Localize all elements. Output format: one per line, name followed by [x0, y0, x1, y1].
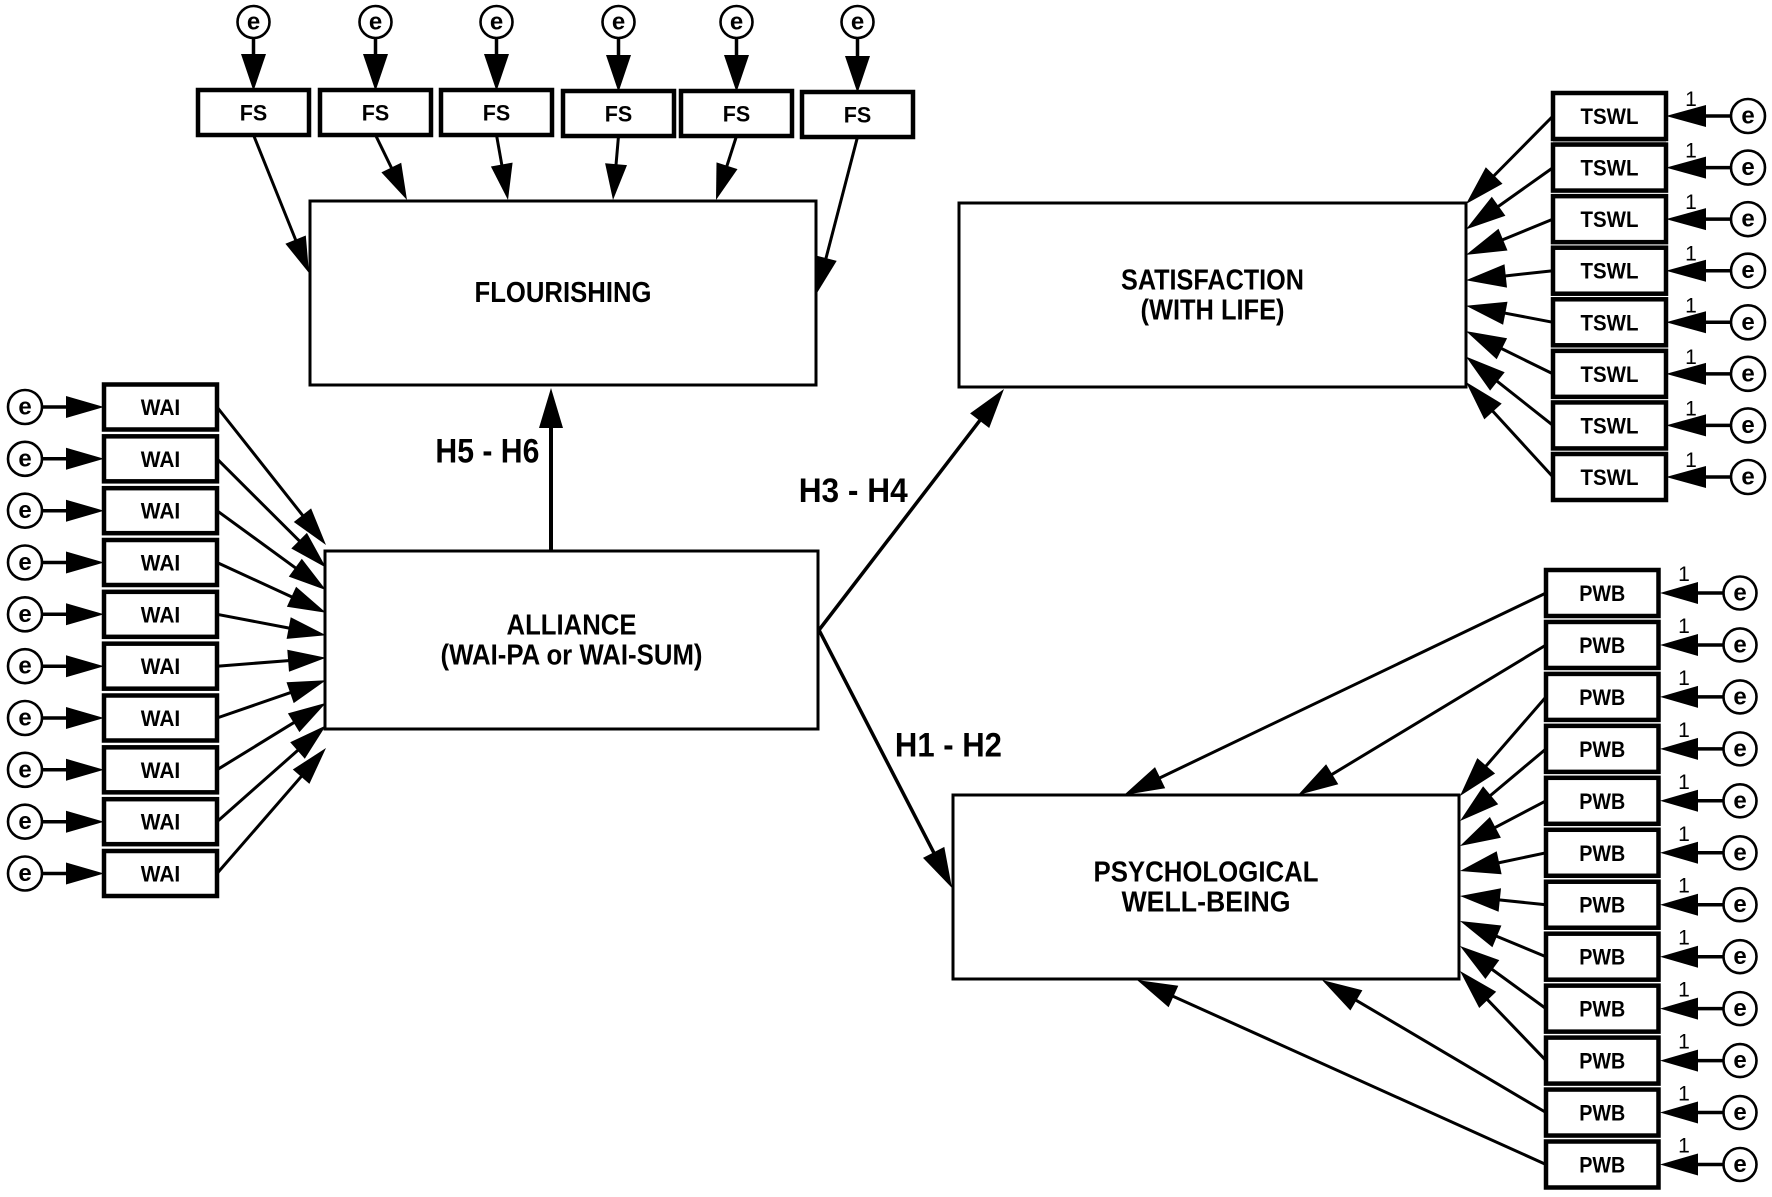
error circle e (left of WAI7): [8, 701, 42, 735]
arrow e to WAI7: [42, 707, 104, 729]
path TSWL5 to SATISFACTION: [1466, 302, 1553, 325]
path FS3 to FLOURISHING (top edge): [491, 135, 513, 200]
svg-text:e: e: [1733, 839, 1746, 866]
path PWB10 to PWB box (right edge): [1460, 971, 1546, 1061]
svg-text:1: 1: [1678, 1135, 1690, 1158]
svg-text:e: e: [1733, 995, 1746, 1022]
indicator box TSWL3: [1553, 196, 1666, 242]
arrow e to PWB2: [1660, 634, 1724, 656]
svg-text:TSWL: TSWL: [1581, 362, 1639, 387]
arrow e to PWB8: [1660, 946, 1724, 968]
svg-text:e: e: [1741, 257, 1754, 284]
svg-text:e: e: [369, 9, 382, 36]
error circle e (right of PWB8): [1724, 940, 1757, 973]
arrow e to PWB3: [1660, 686, 1724, 708]
indicator box TSWL4: [1553, 248, 1666, 294]
error circle e (right of TSWL1): [1731, 99, 1765, 133]
svg-text:WAI: WAI: [141, 810, 181, 835]
indicator box TSWL6: [1553, 351, 1666, 397]
svg-text:e: e: [1741, 360, 1754, 387]
svg-text:e: e: [1733, 1047, 1746, 1074]
indicator box WAI10: [104, 851, 217, 896]
arrow e to PWB7: [1660, 894, 1724, 916]
svg-text:WAI: WAI: [141, 758, 181, 783]
svg-text:e: e: [247, 9, 260, 36]
indicator box WAI3: [104, 488, 217, 533]
svg-text:1: 1: [1685, 191, 1697, 214]
svg-text:PWB: PWB: [1579, 789, 1625, 814]
svg-text:TSWL: TSWL: [1581, 156, 1639, 181]
svg-text:e: e: [18, 653, 31, 680]
structural path ALLIANCE to PSYCHOLOGICAL WELL-BEING (H1-H2): [819, 630, 952, 888]
svg-text:e: e: [1741, 464, 1754, 491]
svg-text:WAI: WAI: [141, 862, 181, 887]
svg-text:WAI: WAI: [141, 654, 181, 679]
error circle e (left of WAI4): [8, 546, 42, 580]
path FS1 to FLOURISHING (left edge): [254, 135, 310, 273]
arrow e to PWB9: [1660, 998, 1724, 1020]
path FS5 to FLOURISHING (top edge): [716, 136, 738, 200]
indicator box TSWL2: [1553, 145, 1666, 191]
svg-text:e: e: [1733, 735, 1746, 762]
indicator box PWB3: [1546, 674, 1659, 720]
path TSWL4 to SATISFACTION: [1466, 264, 1553, 287]
error circle e6 (above FS6): [842, 6, 874, 38]
path PWB1 to PWB box (top edge): [1124, 593, 1546, 795]
svg-text:H3 - H4: H3 - H4: [799, 472, 908, 510]
latent box PSYCHOLOGICAL WELL-BEING: [953, 795, 1459, 979]
error circle e (right of TSWL5): [1731, 305, 1765, 339]
svg-text:H1 - H2: H1 - H2: [895, 726, 1002, 764]
svg-text:TSWL: TSWL: [1581, 259, 1639, 284]
error circle e (right of PWB6): [1724, 836, 1757, 869]
svg-text:PWB: PWB: [1579, 893, 1625, 918]
svg-text:e: e: [1741, 309, 1754, 336]
svg-text:e: e: [851, 9, 864, 36]
svg-text:WAI: WAI: [141, 551, 181, 576]
path PWB9 to PWB box (right edge): [1460, 946, 1546, 1009]
arrow e to PWB5: [1660, 790, 1724, 812]
error circle e4 (above FS4): [603, 6, 635, 38]
path PWB11 to PWB box (bottom edge): [1322, 980, 1546, 1113]
indicator box WAI9: [104, 799, 217, 844]
path WAI2 to ALLIANCE: [217, 459, 326, 568]
path PWB7 to PWB box (right edge): [1460, 888, 1546, 911]
svg-text:e: e: [1741, 154, 1754, 181]
error circle e (right of PWB12): [1724, 1148, 1757, 1181]
arrow e to PWB6: [1660, 842, 1724, 864]
error circle e (right of TSWL4): [1731, 254, 1765, 288]
indicator box TSWL5: [1553, 299, 1666, 345]
path WAI10 to ALLIANCE: [217, 748, 326, 874]
svg-text:1: 1: [1678, 1031, 1690, 1054]
error circle e (right of TSWL8): [1731, 460, 1765, 494]
error circle e (right of PWB3): [1724, 680, 1757, 713]
error circle e (left of WAI6): [8, 649, 42, 683]
indicator box WAI1: [104, 385, 217, 430]
indicator box WAI4: [104, 540, 217, 585]
arrow e3 to FS3: [484, 38, 509, 91]
indicator box TSWL1: [1553, 93, 1666, 139]
arrow e to WAI10: [42, 863, 104, 885]
path FS2 to FLOURISHING (top edge): [376, 135, 408, 200]
error circle e3 (above FS3): [481, 6, 513, 38]
svg-text:WAI: WAI: [141, 499, 181, 524]
error circle e (right of PWB1): [1724, 577, 1757, 610]
svg-text:1: 1: [1685, 88, 1697, 111]
indicator box PWB5: [1546, 778, 1659, 824]
indicator box WAI5: [104, 592, 217, 637]
svg-text:(WITH LIFE): (WITH LIFE): [1141, 295, 1285, 327]
svg-text:e: e: [1733, 580, 1746, 607]
svg-text:1: 1: [1678, 875, 1690, 898]
svg-text:1: 1: [1678, 979, 1690, 1002]
path TSWL8 to SATISFACTION: [1466, 382, 1553, 477]
indicator box WAI7: [104, 696, 217, 741]
svg-text:e: e: [1733, 943, 1746, 970]
error circle e5 (above FS5): [721, 6, 753, 38]
path TSWL7 to SATISFACTION: [1466, 357, 1553, 426]
path PWB4 to PWB box (right edge): [1460, 749, 1546, 821]
svg-text:WAI: WAI: [141, 395, 181, 420]
error circle e (left of WAI1): [8, 390, 42, 424]
arrow e to WAI9: [42, 811, 104, 833]
svg-text:TSWL: TSWL: [1581, 207, 1639, 232]
indicator box PWB10: [1546, 1038, 1659, 1084]
arrow e to PWB10: [1660, 1050, 1724, 1072]
indicator box TSWL8: [1553, 454, 1666, 500]
indicator box TSWL7: [1553, 402, 1666, 448]
path PWB12 to PWB box (bottom edge): [1137, 980, 1546, 1165]
arrow e to PWB1: [1660, 582, 1724, 604]
svg-text:e: e: [18, 705, 31, 732]
svg-text:WELL-BEING: WELL-BEING: [1122, 887, 1291, 919]
svg-text:FLOURISHING: FLOURISHING: [475, 277, 652, 309]
svg-text:(WAI-PA or WAI-SUM): (WAI-PA or WAI-SUM): [441, 640, 703, 672]
path WAI8 to ALLIANCE: [217, 703, 326, 770]
svg-text:PWB: PWB: [1579, 737, 1625, 762]
gray band between TSWL1 and TSWL2: [1553, 139, 1666, 144]
error circle e1 (above FS1): [238, 6, 270, 38]
indicator box PWB4: [1546, 726, 1659, 772]
arrow e1 to FS1: [241, 38, 266, 91]
path PWB6 to PWB box (right edge): [1460, 851, 1546, 874]
path FS6 to FLOURISHING (right edge): [815, 137, 857, 293]
arrow e to PWB4: [1660, 738, 1724, 760]
svg-text:1: 1: [1685, 449, 1697, 472]
svg-text:e: e: [18, 394, 31, 421]
svg-text:FS: FS: [844, 103, 872, 128]
svg-text:TSWL: TSWL: [1581, 104, 1639, 129]
svg-text:e: e: [490, 9, 503, 36]
indicator box FS1: [198, 90, 309, 135]
svg-text:SATISFACTION: SATISFACTION: [1121, 265, 1304, 297]
arrow e4 to FS4: [606, 38, 631, 92]
path TSWL3 to SATISFACTION: [1466, 219, 1553, 255]
error circle e (left of WAI10): [8, 857, 42, 891]
svg-text:e: e: [18, 497, 31, 524]
path PWB8 to PWB box (right edge): [1460, 921, 1546, 957]
svg-text:1: 1: [1678, 615, 1690, 638]
error circle e (right of TSWL3): [1731, 202, 1765, 236]
latent box SATISFACTION: [959, 203, 1466, 387]
svg-text:PWB: PWB: [1579, 581, 1625, 606]
error circle e (right of PWB5): [1724, 784, 1757, 817]
svg-text:WAI: WAI: [141, 602, 181, 627]
svg-text:PWB: PWB: [1579, 997, 1625, 1022]
error circle e (right of TSWL7): [1731, 408, 1765, 442]
indicator box PWB11: [1546, 1090, 1659, 1136]
svg-text:TSWL: TSWL: [1581, 465, 1639, 490]
indicator box FS3: [441, 90, 552, 135]
svg-text:e: e: [1733, 631, 1746, 658]
path WAI9 to ALLIANCE: [217, 725, 326, 821]
arrow e to PWB11: [1660, 1102, 1724, 1124]
svg-text:FS: FS: [362, 101, 390, 126]
svg-text:e: e: [18, 601, 31, 628]
error circle e (left of WAI5): [8, 597, 42, 631]
indicator box PWB12: [1546, 1142, 1659, 1188]
svg-text:e: e: [1733, 683, 1746, 710]
arrow e to TSWL8: [1666, 466, 1731, 488]
path WAI5 to ALLIANCE: [217, 614, 326, 639]
arrow e to TSWL6: [1666, 363, 1731, 385]
arrow e6 to FS6: [845, 38, 870, 93]
svg-text:1: 1: [1685, 346, 1697, 369]
svg-text:e: e: [612, 9, 625, 36]
latent box FLOURISHING: [310, 201, 816, 385]
svg-text:e: e: [18, 860, 31, 887]
svg-text:PWB: PWB: [1579, 633, 1625, 658]
svg-text:1: 1: [1685, 140, 1697, 163]
svg-text:PWB: PWB: [1579, 841, 1625, 866]
error circle e (right of PWB11): [1724, 1096, 1757, 1129]
svg-text:e: e: [18, 549, 31, 576]
svg-text:e: e: [1741, 206, 1754, 233]
svg-text:e: e: [1733, 787, 1746, 814]
svg-text:WAI: WAI: [141, 706, 181, 731]
indicator box PWB9: [1546, 986, 1659, 1032]
indicator box FS5: [681, 91, 792, 136]
svg-text:PWB: PWB: [1579, 1101, 1625, 1126]
svg-text:1: 1: [1678, 823, 1690, 846]
svg-text:e: e: [730, 9, 743, 36]
svg-text:PSYCHOLOGICAL: PSYCHOLOGICAL: [1094, 857, 1319, 889]
indicator box WAI2: [104, 436, 217, 481]
indicator box WAI8: [104, 747, 217, 792]
svg-text:e: e: [18, 445, 31, 472]
latent box ALLIANCE: [325, 551, 818, 729]
arrow e to WAI3: [42, 500, 104, 522]
path PWB2 to PWB box (top edge): [1298, 645, 1546, 795]
svg-text:e: e: [18, 756, 31, 783]
error circle e (right of PWB9): [1724, 992, 1757, 1025]
path WAI4 to ALLIANCE: [217, 563, 326, 613]
error circle e (right of PWB10): [1724, 1044, 1757, 1077]
error circle e (right of PWB7): [1724, 888, 1757, 921]
svg-text:1: 1: [1678, 771, 1690, 794]
indicator box PWB7: [1546, 882, 1659, 928]
path WAI7 to ALLIANCE: [217, 680, 326, 718]
indicator box PWB8: [1546, 934, 1659, 980]
arrow e to WAI2: [42, 448, 104, 470]
svg-text:PWB: PWB: [1579, 1049, 1625, 1074]
path FS4 to FLOURISHING (top edge): [605, 136, 627, 200]
arrow e to WAI8: [42, 759, 104, 781]
svg-text:1: 1: [1685, 294, 1697, 317]
error circle e2 (above FS2): [360, 6, 392, 38]
svg-text:ALLIANCE: ALLIANCE: [507, 610, 637, 642]
indicator box FS6: [802, 92, 913, 137]
error circle e (right of PWB4): [1724, 732, 1757, 765]
arrow e to TSWL4: [1666, 260, 1731, 282]
svg-text:e: e: [1733, 891, 1746, 918]
indicator box PWB6: [1546, 830, 1659, 876]
arrow e to WAI6: [42, 655, 104, 677]
structural path ALLIANCE to FLOURISHING (H5-H6): [539, 388, 563, 551]
svg-text:e: e: [18, 808, 31, 835]
svg-text:e: e: [1741, 103, 1754, 130]
path PWB3 to PWB box (right edge): [1460, 697, 1546, 796]
arrow e to TSWL3: [1666, 208, 1731, 230]
path WAI1 to ALLIANCE: [217, 407, 326, 545]
svg-text:FS: FS: [723, 102, 751, 127]
svg-text:e: e: [1733, 1099, 1746, 1126]
svg-text:FS: FS: [240, 101, 268, 126]
path TSWL6 to SATISFACTION: [1466, 331, 1553, 374]
arrow e to WAI4: [42, 552, 104, 574]
svg-text:H5 - H6: H5 - H6: [435, 433, 539, 471]
arrow e to WAI1: [42, 396, 104, 418]
path PWB5 to PWB box (right edge): [1460, 801, 1546, 846]
error circle e (left of WAI2): [8, 442, 42, 476]
svg-text:FS: FS: [483, 101, 511, 126]
svg-text:1: 1: [1685, 397, 1697, 420]
error circle e (right of TSWL2): [1731, 151, 1765, 185]
svg-text:e: e: [1733, 1151, 1746, 1178]
svg-text:WAI: WAI: [141, 447, 181, 472]
indicator box WAI6: [104, 644, 217, 689]
indicator box FS2: [320, 90, 431, 135]
arrow e to PWB12: [1660, 1154, 1724, 1176]
arrow e to TSWL7: [1666, 414, 1731, 436]
indicator box PWB1: [1546, 570, 1659, 616]
path WAI6 to ALLIANCE: [217, 650, 326, 672]
error circle e (left of WAI3): [8, 494, 42, 528]
indicator box PWB2: [1546, 622, 1659, 668]
svg-text:PWB: PWB: [1579, 945, 1625, 970]
svg-text:TSWL: TSWL: [1581, 310, 1639, 335]
arrow e to WAI5: [42, 603, 104, 625]
path WAI3 to ALLIANCE: [217, 511, 326, 590]
arrow e to TSWL2: [1666, 157, 1731, 179]
svg-text:1: 1: [1678, 719, 1690, 742]
path TSWL2 to SATISFACTION: [1466, 168, 1553, 230]
svg-text:1: 1: [1678, 563, 1690, 586]
arrow e2 to FS2: [363, 38, 388, 91]
arrow e5 to FS5: [724, 38, 749, 92]
indicator box FS4: [563, 91, 674, 136]
error circle e (left of WAI9): [8, 805, 42, 839]
error circle e (left of WAI8): [8, 753, 42, 787]
structural path ALLIANCE to SATISFACTION (H3-H4): [819, 389, 1004, 630]
svg-text:1: 1: [1678, 667, 1690, 690]
error circle e (right of PWB2): [1724, 628, 1757, 661]
error circle e (right of TSWL6): [1731, 357, 1765, 391]
arrow e to TSWL5: [1666, 311, 1731, 333]
svg-text:1: 1: [1678, 927, 1690, 950]
arrow e to TSWL1: [1666, 105, 1731, 127]
path TSWL1 to SATISFACTION: [1466, 116, 1553, 204]
svg-text:1: 1: [1678, 1083, 1690, 1106]
svg-text:PWB: PWB: [1579, 685, 1625, 710]
svg-text:FS: FS: [605, 102, 633, 127]
svg-text:PWB: PWB: [1579, 1153, 1625, 1178]
svg-text:TSWL: TSWL: [1581, 413, 1639, 438]
svg-text:1: 1: [1685, 243, 1697, 266]
svg-text:e: e: [1741, 412, 1754, 439]
